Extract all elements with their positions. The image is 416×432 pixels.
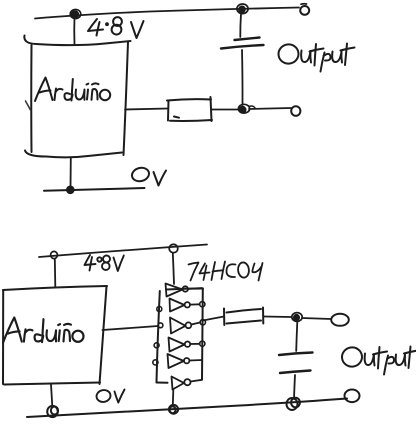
capacitor C3 (series coupling element, box symbol) (224, 308, 263, 326)
terminal: output signal (bottom circuit) (331, 314, 349, 326)
wire: rail junction down to capacitor C1 (239, 14, 242, 37)
node: output junction (bottom circuit) (292, 313, 302, 322)
pin node: gate 3 output on package edge (200, 320, 205, 325)
terminal: 4.8V rail right end (300, 4, 309, 15)
node: Arduino ground junction with 0V rail (scribble) (47, 406, 58, 417)
wire: 0V return rail (bottom circuit) (27, 399, 347, 418)
pin node: gate 2 output on package edge (200, 302, 205, 307)
wire: +4.8V supply rail (top) (35, 8, 299, 19)
label: Output (bottom circuit) (341, 346, 416, 374)
resistor R1 (series output resistor, box symbol) (167, 97, 212, 121)
capacitor C2 (output filter, plates) (279, 353, 313, 374)
label: Arduino (bottom box) (3, 318, 83, 343)
pin node: gate 3 input where Arduino wire meets package (158, 323, 163, 328)
wire: capacitor C1 down to output node (241, 50, 244, 105)
node: junction of capacitor C1 with 4.8V rail (237, 4, 248, 14)
wire: Arduino output to 74HC04 input (103, 326, 159, 330)
wire: Arduino bottom to 0V rail (51, 385, 52, 407)
wire: output node to output terminal (249, 108, 291, 109)
wire: coupling capacitor to output node (264, 316, 291, 319)
wire: output node to output terminal (bottom) (302, 318, 331, 319)
label: 0v (top circuit) (131, 166, 166, 185)
wire: Arduino bottom to 0V rail (70, 158, 72, 188)
wire: 74HC04 ground pin to 0V rail (172, 390, 175, 405)
inverter gate 5 (triangle + bubble) (168, 354, 203, 368)
wire: 74HC04 output to coupling capacitor (203, 317, 224, 321)
node: junction of Arduino ground with 0V rail (66, 186, 75, 195)
stray pen mark left of Arduino box (26, 101, 31, 110)
inverter gate 6 (triangle + bubble) (172, 377, 203, 390)
node: junction of Arduino supply with 4.8V rail (70, 9, 81, 18)
Arduino U1 (top circuit box) (24, 36, 130, 158)
label: 0v (bottom circuit) (95, 389, 124, 403)
wire: 0V return rail (top circuit) (44, 188, 145, 191)
label: Arduino (top box) (35, 78, 110, 102)
wire: output node down to capacitor C2 (296, 322, 297, 351)
capacitor C1 (supply decoupling, plates) (221, 38, 264, 49)
wire: rail tap down to 74HC04 top (173, 253, 174, 284)
wire: rail tap down to Arduino top (54, 259, 57, 287)
inverter gate 4 (triangle + bubble) (169, 338, 200, 352)
wire: capacitor C2 down to 0V rail (294, 375, 295, 399)
wire: from rail junction down to Arduino top (73, 17, 75, 44)
node: supply tap to Arduino (small circle on rail) (51, 251, 58, 258)
label: Output (top circuit) (277, 43, 354, 71)
wire: Arduino output to resistor R1 (125, 109, 168, 110)
inverter gate 2 (triangle + bubble) (170, 299, 200, 312)
terminal: output signal (top circuit) (291, 106, 300, 116)
node: supply tap to 74HC04 (small circle on rail) (169, 244, 178, 252)
74HC04 U3 package outline (157, 289, 204, 383)
node: capacitor C2 junction with 0V rail (scribble) (287, 398, 300, 410)
node: output junction (resistor/capacitor join) (238, 104, 255, 114)
pin node: gate 5 input on package edge (153, 360, 158, 365)
inverter gate 1 (triangle + bubble) (166, 284, 203, 297)
label: 74HC04 part number (189, 262, 263, 281)
wire: resistor R1 to output node (212, 109, 238, 111)
node: 74HC04 ground junction with 0V rail (scribble) (169, 405, 178, 414)
terminal: 0V rail right end (bottom circuit) (345, 390, 360, 403)
pin node: gate 2/3 input on package edge (157, 307, 162, 312)
label: 4.8 V supply voltage (88, 17, 144, 38)
pin node: gate 4 input on package edge (154, 343, 159, 348)
Arduino U2 (bottom circuit box) (3, 286, 107, 385)
pin node: gate 4 output on package edge (200, 341, 205, 346)
inverter gate 3 (triangle + bubble) (170, 318, 200, 334)
wire: 4.8V supply rail (bottom circuit) (39, 245, 207, 258)
label: 4.8V supply (bottom circuit) (85, 255, 124, 271)
